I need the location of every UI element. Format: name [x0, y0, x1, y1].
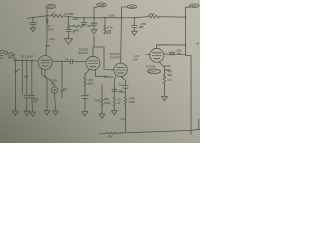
svg-text:+185: +185 — [176, 49, 182, 53]
svg-text:+250: +250 — [129, 5, 135, 9]
svg-text:0.1: 0.1 — [168, 78, 172, 82]
svg-text:+305: +305 — [98, 3, 104, 7]
svg-text:M 8: M 8 — [108, 135, 113, 139]
svg-text:37V: 37V — [133, 57, 138, 61]
svg-text:1M: 1M — [63, 87, 67, 91]
svg-text:EL84: EL84 — [164, 64, 171, 68]
svg-text:567K: 567K — [48, 28, 54, 31]
svg-text:22: 22 — [52, 12, 56, 16]
svg-text:OHM: OHM — [129, 100, 135, 104]
svg-text:630V: 630V — [119, 90, 125, 94]
svg-text:+300: +300 — [190, 4, 196, 8]
svg-text:300: 300 — [48, 5, 53, 9]
svg-text:.05: .05 — [72, 30, 76, 34]
svg-text:1M: 1M — [51, 82, 55, 86]
svg-text:+250: +250 — [108, 13, 115, 17]
svg-text:W 150: W 150 — [65, 12, 74, 16]
svg-text:C3: C3 — [117, 97, 121, 101]
svg-text:+305: +305 — [72, 17, 78, 21]
svg-text:137V: 137V — [106, 32, 112, 35]
svg-text:25uF: 25uF — [88, 81, 94, 85]
svg-text:.02: .02 — [65, 57, 69, 61]
svg-text:680: 680 — [24, 74, 29, 78]
svg-text:12AX7: 12AX7 — [149, 69, 157, 73]
svg-text:(12AX7): (12AX7) — [78, 51, 88, 55]
svg-text:ECC83: ECC83 — [146, 64, 155, 68]
svg-text:+ 0.5: + 0.5 — [133, 54, 139, 58]
svg-text:+110: +110 — [49, 37, 55, 41]
svg-text:OC3: OC3 — [121, 117, 127, 121]
svg-text:0.1: 0.1 — [119, 83, 123, 87]
svg-text:8.2K: 8.2K — [95, 98, 101, 102]
svg-text:(12AX7): (12AX7) — [110, 55, 120, 59]
svg-text:470: 470 — [168, 70, 173, 74]
svg-text:470K: 470K — [129, 97, 135, 101]
svg-text:350: 350 — [87, 24, 92, 28]
svg-text:(R6): (R6) — [104, 97, 109, 101]
svg-text:C3/10: C3/10 — [104, 101, 111, 105]
svg-text:56K: 56K — [150, 12, 155, 16]
svg-text:1.5K: 1.5K — [88, 78, 94, 82]
svg-text:100: 100 — [46, 44, 51, 48]
svg-text:GZ30: GZ30 — [50, 79, 57, 83]
svg-text:1/2 12AX7: 1/2 12AX7 — [20, 55, 34, 59]
svg-text:25V: 25V — [33, 101, 38, 104]
svg-text:.02 470K: .02 470K — [103, 75, 114, 79]
svg-text:56K: 56K — [168, 73, 173, 77]
